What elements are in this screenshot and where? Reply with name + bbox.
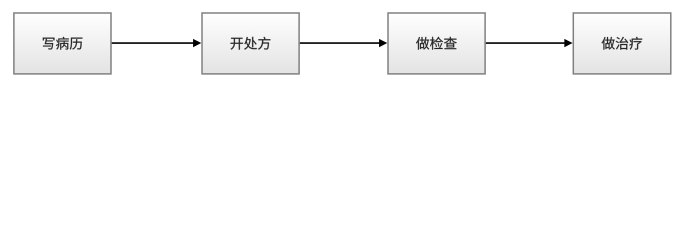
box B2 label text: 开处方: [231, 38, 243, 50]
wire A2: horizontal connector line: [300, 42, 380, 44]
box B4 label text: 做治疗: [602, 37, 615, 50]
wire A3: horizontal connector line: [486, 42, 565, 44]
arrow connector A1: 写病历 to 开处方: [112, 39, 202, 47]
box B4 rectangle (gradient fill, gray border): [573, 13, 671, 74]
arrowhead A1: filled triangle pointing right: [193, 39, 201, 47]
process box B1: 写病历: [14, 13, 111, 74]
wire A1: horizontal connector line: [112, 42, 194, 44]
arrowhead A3: filled triangle pointing right: [564, 39, 572, 47]
box B1 label text: 写病历: [43, 38, 55, 50]
arrow connector A3: 做检查 to 做治疗: [486, 39, 573, 47]
arrow connector A2: 开处方 to 做检查: [300, 39, 387, 47]
arrowhead A2: filled triangle pointing right: [379, 39, 387, 47]
box B3 rectangle (gradient fill, gray border): [388, 13, 485, 74]
process box B4: 做治疗: [573, 13, 671, 74]
box B3 label text: 做检查: [416, 37, 429, 50]
box B2 rectangle (gradient fill, gray border): [202, 13, 299, 74]
process box B3: 做检查: [388, 13, 485, 74]
box B1 rectangle (gradient fill, gray border): [14, 13, 111, 74]
process box B2: 开处方: [202, 13, 299, 74]
